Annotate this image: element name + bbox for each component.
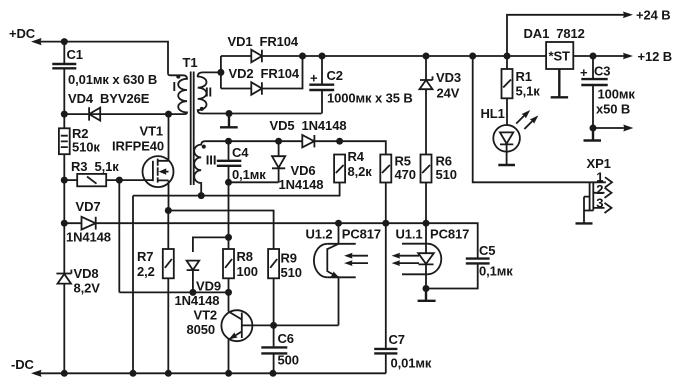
wire control row to C5: [339, 223, 478, 257]
regulator DA1 7812: [524, 26, 585, 69]
node junction bottom rail R7: [165, 370, 172, 377]
diode VD9 1N4148: [175, 261, 222, 309]
svg-text:24V: 24V: [437, 86, 460, 101]
node junction R3 tap: [61, 177, 68, 184]
svg-text:VD4 BYV26E: VD4 BYV26E: [68, 91, 150, 106]
svg-text:C5: C5: [479, 243, 495, 258]
node junction C2 top: [319, 53, 326, 60]
wire bottom rail -DC: [35, 372, 386, 374]
svg-text:C7: C7: [389, 332, 405, 347]
wire winding III return to bottom rail: [132, 196, 134, 374]
svg-text:R1: R1: [516, 69, 532, 84]
svg-text:510: 510: [281, 265, 302, 280]
node junction R5 bottom: [382, 220, 389, 227]
svg-text:0,1мк: 0,1мк: [479, 264, 513, 279]
node junction bottom rail C6: [270, 370, 277, 377]
svg-text:+DC: +DC: [9, 26, 36, 41]
svg-text:VD5 1N4148: VD5 1N4148: [270, 118, 347, 133]
resistor R5 470: [380, 154, 416, 224]
wire VD9 bottom row to gate line: [119, 291, 228, 293]
svg-text:IRFPE40: IRFPE40: [112, 139, 164, 154]
svg-text:PC817: PC817: [342, 227, 381, 242]
node junction C1 bottom / R2 top: [61, 111, 68, 118]
svg-text:C1: C1: [67, 47, 83, 62]
node junction gate feedback tap: [116, 177, 123, 184]
transformer T1 winding I: [168, 73, 187, 114]
svg-text:III: III: [206, 153, 217, 168]
wire left rail R2 section: [63, 114, 65, 223]
wire gate control row junctions: [335, 220, 342, 227]
wire gate feedback vertical line down: [118, 180, 120, 292]
wire VD4 anode-cathode row: [64, 113, 168, 115]
svg-text:VT1: VT1: [140, 124, 164, 139]
wire XP1 branch: [473, 56, 606, 182]
svg-text:R7: R7: [137, 249, 153, 264]
node junction R6 bottom / U1.1 anode: [423, 220, 430, 227]
resistor R2 510k: [59, 126, 100, 155]
wire VT2 base row to optocoupler emitter: [274, 324, 339, 326]
node junction winding III bottom: [198, 192, 205, 199]
ground symbol XP1: [576, 197, 594, 224]
svg-text:+: +: [310, 71, 318, 86]
node junction R1 / +24V tap: [504, 53, 511, 60]
node common output arrow: [593, 125, 633, 132]
svg-text:VD6: VD6: [291, 163, 316, 178]
diode VD7 1N4148: [66, 199, 111, 245]
connector XP1: [587, 156, 613, 213]
node junction VT1 source / R7 / wire to R9: [165, 207, 172, 214]
svg-text:C4: C4: [232, 145, 249, 160]
wire left rail to VD8: [63, 223, 65, 273]
node junction C1 top: [61, 38, 68, 45]
svg-text:R3 5,1к: R3 5,1к: [71, 159, 119, 174]
wire gate protection row VD7: [64, 222, 338, 224]
svg-text:510: 510: [436, 167, 457, 182]
ground symbol DA1: [551, 69, 568, 97]
node junction R8 bottom: [225, 289, 232, 296]
resistor R7 2,2: [137, 211, 174, 374]
wire left rail VD8 to bottom rail: [63, 284, 65, 374]
ground symbol C3: [584, 128, 602, 141]
svg-text:R8: R8: [237, 249, 253, 264]
svg-text:VD3: VD3: [436, 70, 461, 85]
capacitor C5 0,1mk: [466, 243, 513, 279]
resistor R3 5,1k: [64, 159, 119, 186]
node junction VT2 base / R9 / C6: [270, 322, 277, 329]
svg-text:VD2 FR104: VD2 FR104: [229, 66, 300, 81]
ground symbol transformer common: [220, 114, 238, 128]
node junction VD6 top: [275, 138, 282, 145]
node junction winding I bottom / VT1 drain: [165, 111, 172, 118]
resistor R6 510: [421, 154, 457, 224]
node junction VD9 top tap: [225, 234, 232, 241]
zener diode VD3 24V: [420, 56, 462, 155]
LED HL1: [481, 106, 539, 164]
wire VD2 branch: [221, 56, 303, 89]
svg-text:1000мк x 35 В: 1000мк x 35 В: [327, 91, 413, 106]
wire VD1 branch: [221, 55, 546, 57]
svg-text:+24 В: +24 В: [636, 8, 671, 23]
svg-text:R9: R9: [281, 251, 297, 266]
node junction VD7 tap on left rail: [61, 220, 68, 227]
node +12V output arrow: [623, 49, 672, 64]
capacitor C4 0,1mk: [217, 141, 266, 182]
optocoupler U1.2 PC817 phototransistor: [306, 223, 382, 325]
wire rectifier bracket left: [220, 56, 222, 89]
svg-text:II: II: [205, 84, 212, 99]
diode VD4 BYV26E: [68, 91, 150, 121]
node junction XP1 branch tap: [469, 53, 476, 60]
svg-text:1N4148: 1N4148: [279, 177, 324, 192]
wire winding III top row: [206, 141, 386, 154]
node +24V output arrow: [507, 8, 671, 57]
wire R8 riser C4 to VT2 collector: [228, 182, 230, 311]
capacitor C3 100mk x50V: [580, 56, 635, 128]
svg-text:DA1 7812: DA1 7812: [524, 26, 585, 41]
node junction winding II top: [217, 69, 224, 76]
wire VD9 branch top: [193, 237, 229, 252]
svg-text:U1.1: U1.1: [396, 227, 423, 242]
svg-text:0,01мк x 630 В: 0,01мк x 630 В: [68, 72, 157, 87]
svg-text:8,2V: 8,2V: [74, 281, 101, 296]
svg-text:+12 В: +12 В: [638, 49, 673, 64]
svg-text:100: 100: [237, 264, 258, 279]
svg-text:470: 470: [395, 167, 416, 182]
resistor R1 5,1k: [502, 56, 541, 125]
svg-text:*ST: *ST: [549, 49, 571, 64]
transistor VT2 8050: [187, 308, 274, 374]
node junction VD3 top: [423, 53, 430, 60]
svg-text:5,1к: 5,1к: [516, 84, 541, 99]
transformer T1 core: [183, 55, 198, 185]
svg-text:VT2: VT2: [194, 308, 218, 323]
ground symbol HL1: [498, 164, 515, 166]
svg-text:VD1 FR104: VD1 FR104: [228, 34, 299, 49]
wire C7 riser: [385, 223, 387, 348]
node junction bottom rail VD8: [61, 370, 68, 377]
resistor R8 100: [223, 249, 258, 279]
wire gate from R3 to VT1: [106, 179, 153, 181]
resistor R9 510: [268, 249, 302, 325]
wire C4 to VD6 bottom row: [229, 181, 279, 183]
diode VD2 FR104: [229, 66, 300, 95]
svg-text:2,2: 2,2: [137, 264, 155, 279]
wire winding II bottom row: [229, 113, 322, 115]
svg-text:x50 В: x50 В: [596, 102, 630, 117]
svg-text:HL1: HL1: [481, 106, 505, 121]
diode VD6 1N4148: [272, 141, 323, 192]
svg-text:T1: T1: [183, 55, 198, 70]
svg-text:I: I: [173, 79, 177, 94]
svg-text:+: +: [580, 65, 588, 80]
capacitor C1: [52, 42, 157, 115]
node junction ground tap winding II: [226, 110, 233, 117]
wire source row to R9: [168, 211, 273, 250]
node junction VD1-VD2 cathodes: [299, 53, 306, 60]
wire VT1 drain-source vertical line: [168, 114, 170, 210]
node junction C4 bottom / R8 riser: [225, 179, 232, 186]
node -DC output arrow: [11, 357, 42, 377]
transistor VT1 IRFPE40: [112, 124, 174, 188]
node junction U1.1 cathode: [423, 285, 430, 292]
node junction C4 top: [225, 138, 232, 145]
resistor R4 8,2k: [334, 149, 372, 183]
transformer T1 winding II: [198, 72, 229, 113]
node junction VD9 bottom: [189, 289, 196, 296]
capacitor C7 0,01mk: [374, 332, 432, 373]
wire +DC top rail to transformer primary: [64, 42, 168, 74]
svg-text:1N4148: 1N4148: [175, 293, 220, 308]
capacitor C2 1000mk x 35V: [309, 56, 412, 114]
capacitor C6 500: [261, 325, 299, 373]
svg-text:500: 500: [278, 353, 299, 368]
svg-text:8,2к: 8,2к: [348, 164, 373, 179]
node junction bottom rail VT2 emitter: [225, 370, 232, 377]
transformer T1 winding III: [194, 141, 216, 195]
wire winding III bottom row: [133, 183, 340, 196]
svg-text:0,01мк: 0,01мк: [391, 356, 432, 371]
wire U1.1 cathode to C5 bottom: [426, 263, 478, 288]
wire DA1 output: [573, 55, 627, 57]
node junction bottom rail winding III return: [130, 370, 137, 377]
diode VD5 1N4148: [270, 118, 347, 147]
node junction R4 top: [336, 138, 343, 145]
zener diode VD8 8,2V: [56, 266, 100, 296]
optocoupler U1.1 PC817 LED: [392, 223, 470, 288]
svg-text:PC817: PC817: [430, 227, 469, 242]
node junction C3 top: [590, 53, 597, 60]
svg-text:0,1мк: 0,1мк: [232, 167, 266, 182]
svg-text:510к: 510к: [72, 140, 100, 155]
svg-text:C6: C6: [278, 331, 294, 346]
node +DC input arrow: [9, 26, 64, 45]
svg-text:C3: C3: [594, 64, 610, 79]
ground symbol U1.1: [418, 289, 436, 301]
svg-text:C2: C2: [327, 68, 343, 83]
svg-text:VD7: VD7: [76, 199, 101, 214]
svg-text:VD8: VD8: [74, 266, 99, 281]
svg-text:8050: 8050: [187, 322, 216, 337]
svg-text:-DC: -DC: [11, 357, 35, 372]
svg-text:VD9: VD9: [196, 279, 221, 294]
svg-text:R4: R4: [348, 149, 365, 164]
svg-text:1N4148: 1N4148: [66, 230, 111, 245]
svg-text:100мк: 100мк: [598, 87, 636, 102]
node junction C3 bottom: [590, 125, 597, 132]
diode VD1 FR104: [228, 34, 299, 62]
svg-text:U1.2: U1.2: [306, 227, 333, 242]
